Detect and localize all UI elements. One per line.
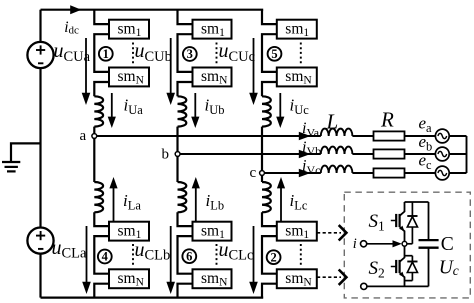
wire: phase b L to R (352, 153, 373, 155)
diode D1 (405, 202, 418, 244)
svg-text:5: 5 (271, 47, 277, 61)
arrow: current i_Va (299, 132, 311, 140)
voltage source V1 (upper DC source) (27, 42, 53, 68)
arrow: arm voltage u_CUc measurement (253, 38, 255, 94)
arrow: current i_Lc (277, 177, 285, 188)
submodule box sm1 lower arm c (277, 222, 317, 241)
arrow: SM current i (367, 243, 395, 245)
svg-text:3: 3 (187, 47, 193, 61)
inductor L phase a (321, 129, 353, 136)
submodule box smN upper arm c (277, 68, 317, 87)
wire: ground stub (11, 143, 41, 161)
wire: lower arm b (node b to inductor) (176, 154, 178, 182)
svg-text:L: L (326, 110, 339, 134)
arrow: current i_Vb (299, 150, 311, 158)
node: SM midpoint (402, 241, 407, 246)
wire: phase a R to source e_a (405, 135, 436, 137)
wire: phase a AC line (94, 135, 320, 137)
circled arm number 6 (lower arm b) (182, 249, 196, 263)
svg-text:C: C (441, 234, 454, 255)
AC source e_a (435, 129, 449, 143)
node a (92, 134, 97, 139)
arrow: arm voltage u_CLc measurement (253, 226, 255, 283)
transistor S2 (IGBT) (391, 246, 405, 286)
transistor S1 (IGBT) (391, 202, 405, 241)
svg-text:a: a (80, 128, 87, 144)
circled arm number 3 (upper arm b) (183, 47, 197, 61)
svg-text:6: 6 (186, 249, 192, 263)
arrow: i_dc direction on top bus (70, 5, 81, 14)
arrow: arm voltage u_CUa measurement (85, 38, 87, 94)
wire: source e_a to neutral bus (449, 135, 466, 137)
wire: SM bottom rail (367, 285, 429, 287)
wire: upper arm c chain (bus to sm1, sm1 to smN, smN to inductor) (262, 10, 277, 97)
AC source e_c (435, 166, 449, 180)
inductor L phase c (321, 166, 353, 173)
inductor L phase b (321, 147, 353, 154)
submodule box smN lower arm a (109, 269, 149, 288)
voltage source V2 (lower DC source) (27, 228, 53, 254)
inductor: upper arm c (262, 96, 271, 126)
dashed arrow: sm1 to SM detail (317, 232, 341, 234)
wire: phase b AC line (178, 153, 321, 155)
wire: SM top rail (405, 201, 429, 203)
svg-text:c: c (250, 165, 257, 181)
dotted continuation of submodules lower arm c (300, 244, 302, 266)
wire: phase a L to R (352, 135, 373, 137)
inductor: upper arm a (94, 96, 103, 126)
SM bottom terminal (361, 283, 367, 289)
SM detail inset dashed box (344, 192, 470, 298)
wire: lower arm c (node c to inductor) (261, 173, 263, 182)
arrow: current i_Uc (279, 93, 281, 118)
svg-text:4: 4 (102, 250, 109, 264)
arrow: arm voltage u_CLa measurement (86, 226, 88, 283)
svg-text:R: R (380, 108, 394, 132)
submodule box sm1 lower arm a (109, 222, 149, 241)
wire: upper arm a inductor to node a (93, 127, 95, 136)
submodule box smN upper arm b (193, 68, 232, 87)
dashed arrow: smN to SM detail (317, 276, 341, 278)
resistor R phase c (374, 168, 405, 177)
svg-text:i: i (353, 236, 357, 252)
inductor: lower arm c (262, 182, 271, 212)
arrow: current i_Ua (111, 93, 113, 118)
wire: source e_b to neutral bus (449, 153, 466, 155)
submodule box sm1 lower arm b (193, 222, 232, 241)
wire: AC neutral bus (466, 136, 468, 173)
submodule box smN lower arm b (193, 269, 232, 288)
circled arm number 5 (upper arm c) (268, 47, 282, 61)
svg-text:b: b (162, 147, 170, 163)
dotted continuation of submodules lower arm a (132, 244, 134, 266)
circled arm number 1 (upper arm a) (99, 47, 113, 61)
wire: left DC link upper segment (39, 10, 41, 42)
inductor: upper arm b (178, 96, 187, 126)
submodule box smN lower arm c (277, 269, 317, 288)
wire: left DC link middle segment (39, 68, 41, 227)
arrow: arm voltage u_CUb measurement (170, 38, 172, 94)
SM input terminal (361, 241, 367, 247)
dotted continuation of submodules lower arm b (216, 244, 218, 266)
arrow: arm voltage u_CLb measurement (170, 226, 172, 283)
wire: upper arm a chain (bus to sm1, sm1 to smN, smN to inductor) (94, 10, 109, 97)
resistor R phase b (374, 149, 405, 158)
svg-text:2: 2 (270, 250, 276, 264)
submodule box sm1 upper arm c (277, 20, 317, 39)
arrow: current i_Lb (192, 177, 200, 188)
svg-text:1: 1 (103, 47, 109, 61)
wire: lower arm a chain (inductor to sm1, sm1 to smN, smN to bottom bus) (94, 212, 109, 297)
arrow: current i_Ub (194, 93, 196, 118)
wire: lower arm c chain (inductor to sm1, sm1 to smN, smN to bottom bus) (262, 212, 277, 297)
wire: top DC bus (41, 9, 264, 11)
wire: phase c L to R (352, 172, 373, 174)
wire: left DC link lower segment (39, 254, 41, 298)
arrow: current i_Vc (299, 169, 311, 177)
wire: lower arm a (node a to inductor) (93, 136, 95, 182)
submodule box sm1 upper arm b (193, 20, 232, 39)
inductor: lower arm a (94, 182, 103, 212)
arrow: current i_La (109, 177, 117, 188)
inductor: lower arm b (178, 182, 187, 212)
wire: phase c R to source e_c (405, 172, 436, 174)
dotted continuation of submodules upper arm c (300, 43, 302, 65)
circled arm number 2 (lower arm c) (267, 250, 281, 264)
dotted continuation of submodules upper arm a (132, 43, 134, 65)
diode D2 (405, 256, 418, 281)
submodule box smN upper arm a (109, 68, 149, 87)
circled arm number 4 (lower arm a) (98, 250, 112, 264)
dotted continuation of submodules upper arm b (216, 43, 218, 65)
wire: source e_c to neutral bus (449, 172, 466, 174)
wire: phase c AC line (262, 172, 321, 174)
resistor R phase a (374, 131, 405, 140)
wire: lower arm b chain (inductor to sm1, sm1 to smN, smN to bottom bus) (178, 212, 193, 297)
wire: bottom DC bus (41, 297, 264, 299)
capacitor C (419, 202, 439, 286)
node b (175, 152, 180, 157)
submodule box sm1 upper arm a (109, 20, 149, 39)
ground (2, 162, 20, 171)
wire: phase b R to source e_b (405, 153, 436, 155)
wire: upper arm b inductor to node b (176, 127, 178, 154)
node c (260, 171, 265, 176)
AC source e_b (435, 147, 449, 161)
wire: upper arm c inductor to node c (261, 127, 263, 173)
wire: upper arm b chain (bus to sm1, sm1 to smN, smN to inductor) (178, 10, 193, 97)
